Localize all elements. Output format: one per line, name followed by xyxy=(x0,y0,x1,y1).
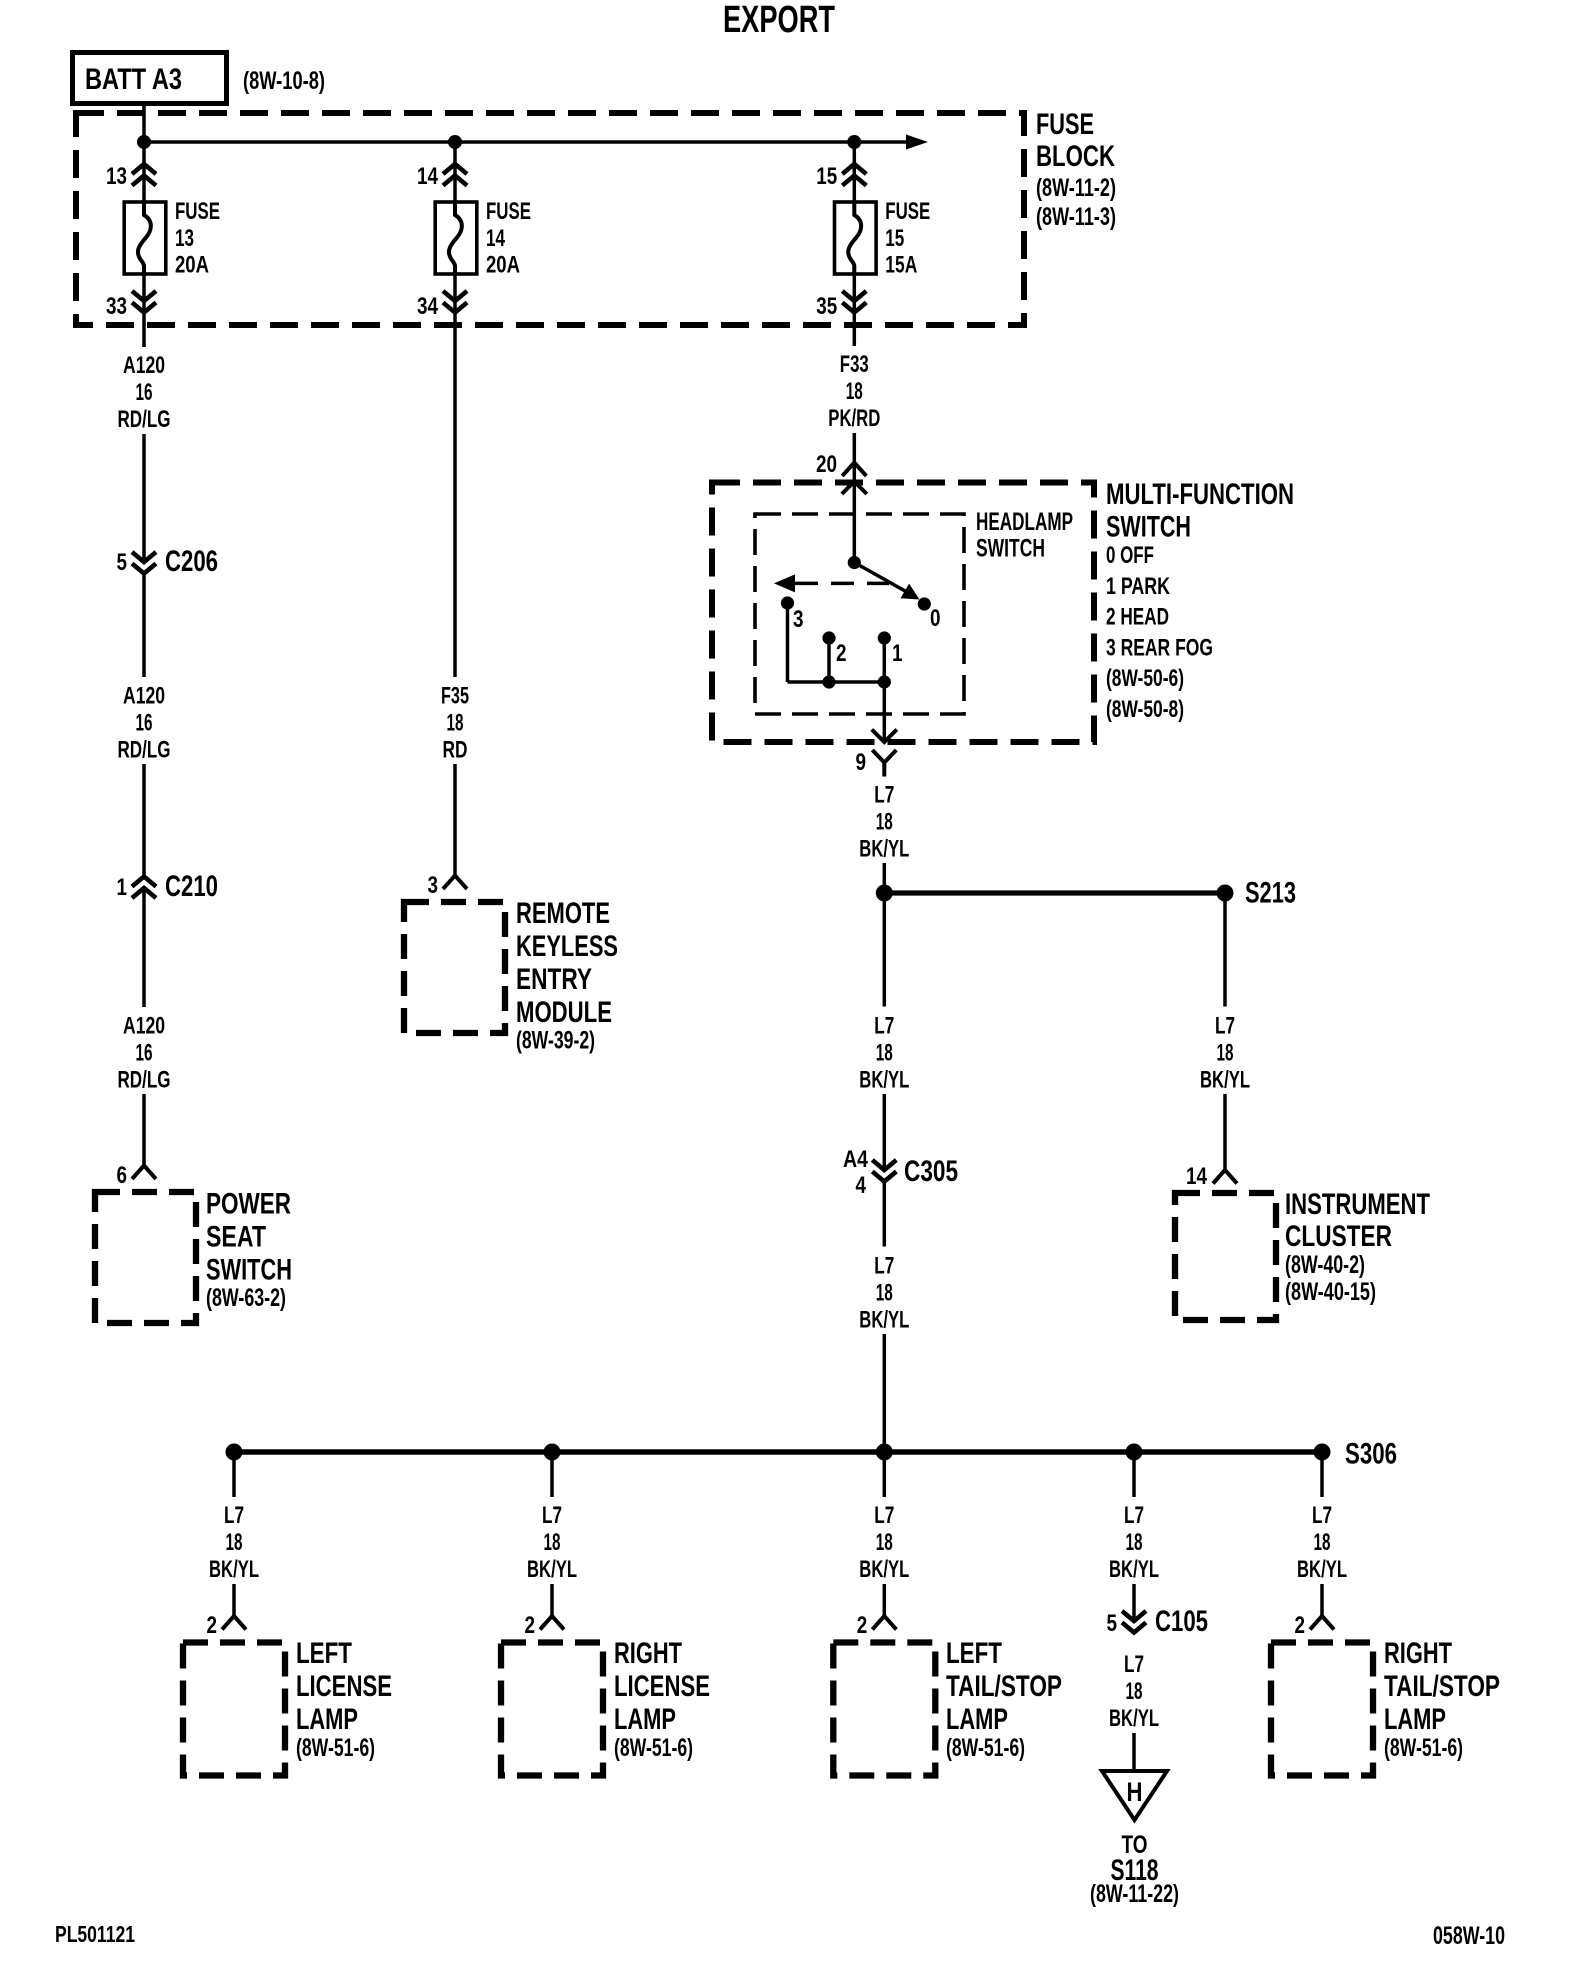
svg-text:BATT A3: BATT A3 xyxy=(85,63,182,96)
svg-text:LICENSE: LICENSE xyxy=(614,1670,710,1703)
svg-text:INSTRUMENT: INSTRUMENT xyxy=(1285,1188,1430,1221)
svg-text:(8W-11-22): (8W-11-22) xyxy=(1090,1880,1179,1908)
svg-text:(8W-40-15): (8W-40-15) xyxy=(1285,1278,1376,1306)
svg-text:TAIL/STOP: TAIL/STOP xyxy=(946,1670,1062,1703)
svg-text:EXPORT: EXPORT xyxy=(723,0,835,41)
svg-text:F35: F35 xyxy=(441,683,469,710)
svg-text:(8W-40-2): (8W-40-2) xyxy=(1285,1251,1365,1279)
svg-text:2: 2 xyxy=(207,1612,218,1639)
svg-text:LEFT: LEFT xyxy=(296,1637,352,1670)
svg-text:2: 2 xyxy=(525,1612,536,1639)
svg-text:2 HEAD: 2 HEAD xyxy=(1106,604,1169,631)
svg-text:FUSE: FUSE xyxy=(175,198,220,225)
svg-text:FUSE: FUSE xyxy=(1036,108,1094,141)
svg-text:PK/RD: PK/RD xyxy=(828,405,880,432)
svg-text:34: 34 xyxy=(417,293,439,320)
svg-text:(8W-51-6): (8W-51-6) xyxy=(946,1734,1025,1762)
svg-text:(8W-51-6): (8W-51-6) xyxy=(614,1734,693,1762)
svg-text:0 OFF: 0 OFF xyxy=(1106,542,1154,569)
svg-text:L7: L7 xyxy=(1124,1651,1144,1678)
svg-text:5: 5 xyxy=(117,549,128,576)
svg-text:18: 18 xyxy=(876,1529,893,1556)
svg-text:18: 18 xyxy=(846,378,863,405)
svg-text:1: 1 xyxy=(117,874,128,901)
svg-text:H: H xyxy=(1127,1777,1143,1807)
svg-text:ENTRY: ENTRY xyxy=(516,963,592,996)
svg-text:TAIL/STOP: TAIL/STOP xyxy=(1384,1670,1500,1703)
svg-text:RD: RD xyxy=(443,737,468,764)
svg-text:S306: S306 xyxy=(1345,1438,1397,1471)
svg-text:A120: A120 xyxy=(123,683,165,710)
svg-text:BK/YL: BK/YL xyxy=(209,1556,259,1583)
svg-text:18: 18 xyxy=(1126,1678,1143,1705)
svg-text:(8W-50-6): (8W-50-6) xyxy=(1106,665,1184,692)
svg-text:BK/YL: BK/YL xyxy=(1297,1556,1347,1583)
svg-text:BK/YL: BK/YL xyxy=(1109,1705,1159,1732)
svg-text:(8W-51-6): (8W-51-6) xyxy=(296,1734,375,1762)
svg-text:LICENSE: LICENSE xyxy=(296,1670,392,1703)
svg-text:16: 16 xyxy=(136,710,153,737)
svg-text:L7: L7 xyxy=(874,1253,894,1280)
svg-text:18: 18 xyxy=(544,1529,561,1556)
svg-text:15: 15 xyxy=(885,225,904,252)
svg-text:A120: A120 xyxy=(123,1013,165,1040)
svg-text:14: 14 xyxy=(417,163,439,190)
svg-text:(8W-39-2): (8W-39-2) xyxy=(516,1027,595,1055)
svg-text:20A: 20A xyxy=(175,251,209,278)
svg-text:L7: L7 xyxy=(224,1502,244,1529)
svg-text:6: 6 xyxy=(117,1162,128,1189)
svg-text:LAMP: LAMP xyxy=(946,1703,1008,1736)
svg-text:L7: L7 xyxy=(874,1013,894,1040)
svg-text:LAMP: LAMP xyxy=(296,1703,358,1736)
svg-text:15A: 15A xyxy=(885,251,917,278)
svg-text:FUSE: FUSE xyxy=(486,198,531,225)
svg-text:16: 16 xyxy=(136,379,153,406)
svg-text:KEYLESS: KEYLESS xyxy=(516,930,618,963)
svg-text:BK/YL: BK/YL xyxy=(1200,1067,1250,1094)
svg-text:18: 18 xyxy=(876,809,893,836)
svg-text:F33: F33 xyxy=(840,351,869,378)
svg-text:LAMP: LAMP xyxy=(1384,1703,1446,1736)
svg-text:13: 13 xyxy=(106,163,127,190)
svg-text:2: 2 xyxy=(857,1612,868,1639)
svg-text:(8W-11-3): (8W-11-3) xyxy=(1036,203,1116,231)
svg-text:13: 13 xyxy=(175,225,194,252)
svg-text:5: 5 xyxy=(1107,1610,1118,1637)
svg-text:L7: L7 xyxy=(874,782,894,809)
svg-text:FUSE: FUSE xyxy=(885,198,930,225)
svg-text:RD/LG: RD/LG xyxy=(118,737,171,764)
svg-text:PL501121: PL501121 xyxy=(55,1921,135,1947)
svg-text:SWITCH: SWITCH xyxy=(1106,511,1191,544)
svg-text:2: 2 xyxy=(1295,1612,1306,1639)
svg-text:18: 18 xyxy=(1314,1529,1331,1556)
svg-text:2: 2 xyxy=(836,640,847,667)
svg-text:POWER: POWER xyxy=(206,1188,291,1221)
svg-text:BK/YL: BK/YL xyxy=(859,1067,909,1094)
svg-text:(8W-11-2): (8W-11-2) xyxy=(1036,174,1116,202)
svg-text:058W-10: 058W-10 xyxy=(1433,1922,1505,1950)
svg-text:16: 16 xyxy=(136,1040,153,1067)
svg-text:15: 15 xyxy=(816,163,837,190)
svg-text:1 PARK: 1 PARK xyxy=(1106,573,1170,600)
svg-text:(8W-50-8): (8W-50-8) xyxy=(1106,696,1184,723)
svg-text:BLOCK: BLOCK xyxy=(1036,140,1115,173)
svg-text:L7: L7 xyxy=(1215,1013,1235,1040)
svg-text:33: 33 xyxy=(106,293,127,320)
svg-text:MODULE: MODULE xyxy=(516,996,612,1029)
svg-text:3: 3 xyxy=(793,606,804,633)
svg-text:L7: L7 xyxy=(542,1502,562,1529)
svg-text:BK/YL: BK/YL xyxy=(1109,1556,1159,1583)
svg-text:20: 20 xyxy=(816,451,837,478)
svg-text:REMOTE: REMOTE xyxy=(516,897,610,930)
svg-text:BK/YL: BK/YL xyxy=(859,1556,909,1583)
svg-text:L7: L7 xyxy=(1312,1502,1332,1529)
svg-text:14: 14 xyxy=(1186,1163,1208,1190)
svg-text:A4: A4 xyxy=(843,1146,869,1173)
svg-text:L7: L7 xyxy=(874,1502,894,1529)
svg-text:SEAT: SEAT xyxy=(206,1221,266,1254)
svg-text:(8W-63-2): (8W-63-2) xyxy=(206,1284,286,1312)
svg-text:C305: C305 xyxy=(904,1155,958,1188)
svg-text:S213: S213 xyxy=(1245,877,1296,910)
svg-text:SWITCH: SWITCH xyxy=(976,535,1045,563)
svg-text:9: 9 xyxy=(856,749,867,776)
svg-text:C105: C105 xyxy=(1155,1605,1208,1638)
svg-text:SWITCH: SWITCH xyxy=(206,1254,292,1287)
svg-text:14: 14 xyxy=(486,225,505,252)
svg-text:18: 18 xyxy=(1126,1529,1143,1556)
svg-text:BK/YL: BK/YL xyxy=(527,1556,577,1583)
svg-text:3: 3 xyxy=(428,872,439,899)
svg-text:L7: L7 xyxy=(1124,1502,1144,1529)
svg-text:35: 35 xyxy=(816,293,837,320)
svg-text:18: 18 xyxy=(447,710,464,737)
svg-text:RIGHT: RIGHT xyxy=(614,1637,682,1670)
svg-text:18: 18 xyxy=(226,1529,243,1556)
svg-text:BK/YL: BK/YL xyxy=(859,1307,909,1334)
svg-text:LAMP: LAMP xyxy=(614,1703,676,1736)
svg-text:(8W-10-8): (8W-10-8) xyxy=(243,67,325,95)
svg-text:4: 4 xyxy=(856,1172,867,1199)
svg-text:18: 18 xyxy=(876,1040,893,1067)
svg-text:(8W-51-6): (8W-51-6) xyxy=(1384,1734,1463,1762)
svg-text:1: 1 xyxy=(892,640,903,667)
svg-text:20A: 20A xyxy=(486,251,520,278)
svg-text:BK/YL: BK/YL xyxy=(859,836,909,863)
svg-text:RD/LG: RD/LG xyxy=(118,1067,171,1094)
svg-text:HEADLAMP: HEADLAMP xyxy=(976,508,1073,536)
svg-text:18: 18 xyxy=(876,1280,893,1307)
svg-text:18: 18 xyxy=(1217,1040,1234,1067)
svg-text:LEFT: LEFT xyxy=(946,1637,1002,1670)
svg-text:RIGHT: RIGHT xyxy=(1384,1637,1452,1670)
svg-text:C206: C206 xyxy=(165,545,218,578)
svg-text:3 REAR FOG: 3 REAR FOG xyxy=(1106,635,1213,662)
svg-text:RD/LG: RD/LG xyxy=(118,406,171,433)
svg-text:A120: A120 xyxy=(123,352,165,379)
svg-text:0: 0 xyxy=(930,605,941,632)
svg-text:CLUSTER: CLUSTER xyxy=(1285,1220,1392,1253)
svg-text:C210: C210 xyxy=(165,870,218,903)
svg-text:MULTI-FUNCTION: MULTI-FUNCTION xyxy=(1106,478,1294,511)
